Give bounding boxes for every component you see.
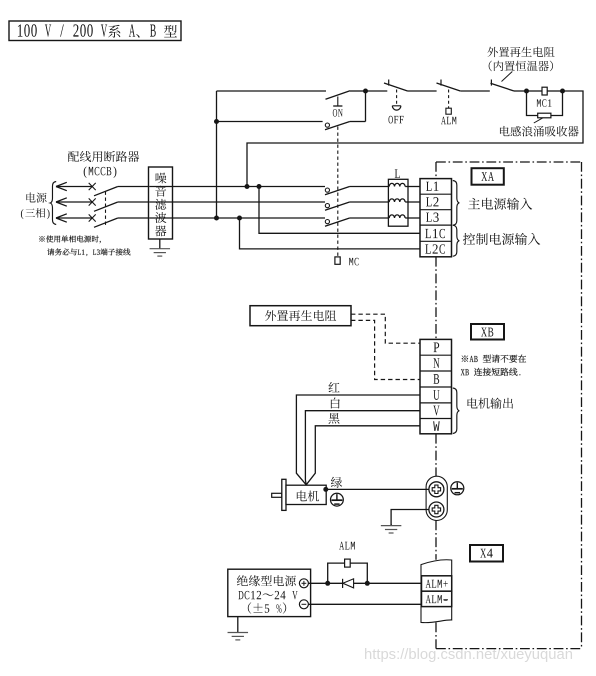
servo drive boundary (chain line) bbox=[436, 162, 582, 649]
wire OFF to ALM bbox=[408, 90, 437, 92]
wire U (red) bbox=[296, 382, 420, 485]
wire: control bus left vertical from phase L3 bbox=[216, 91, 218, 218]
connector label XB bbox=[471, 324, 504, 340]
screw terminal lower bbox=[429, 502, 444, 517]
wire: minus to ALM- bbox=[308, 603, 420, 605]
title box 100V/200V bbox=[9, 21, 181, 41]
ground: power supply bbox=[228, 617, 249, 640]
connector label XA bbox=[472, 168, 504, 185]
wire phase 1 filter to MC contact bbox=[149, 186, 325, 188]
source arrow phase 3 bbox=[56, 214, 92, 222]
connector label X4 bbox=[470, 545, 503, 562]
contact MC pole 2 bbox=[325, 202, 389, 210]
isolated power supply box bbox=[228, 569, 311, 616]
source arrow phase 2 bbox=[56, 198, 92, 206]
wire: L2C tap bbox=[240, 218, 421, 249]
breaker MCCB pole 3 bbox=[89, 214, 149, 227]
watermark bbox=[364, 647, 573, 663]
terminal minus bbox=[299, 600, 308, 609]
thermostat contact (ext. regen resistor) bbox=[491, 72, 515, 92]
contact MC pole 3 bbox=[325, 218, 389, 226]
brace: main power input bbox=[453, 181, 532, 226]
noise filter label bbox=[155, 173, 166, 237]
wire: self holding branch lower bbox=[217, 121, 323, 123]
wire: control return to phase L1 bbox=[247, 91, 583, 187]
terminal ALM- bbox=[422, 591, 452, 606]
junction nodes MC1 bbox=[524, 89, 565, 94]
junction node: ON/self-hold bbox=[214, 89, 368, 125]
reactor L winding 1 bbox=[389, 183, 420, 186]
wire: regen to B (dashed) bbox=[351, 320, 420, 379]
reactor L winding 2 bbox=[389, 199, 420, 202]
terminal plus bbox=[299, 579, 308, 588]
breaker MCCB pole 1 bbox=[89, 183, 149, 196]
breaker MCCB pole 2 bbox=[89, 198, 149, 211]
surge absorber branch bbox=[527, 91, 563, 123]
switch OFF pushbutton NC bbox=[384, 80, 408, 124]
terminal ALM+ bbox=[422, 576, 452, 591]
wire V (white) bbox=[305, 398, 420, 485]
wire: plus to ALM+ bbox=[308, 582, 420, 584]
note: AB type no short bar bbox=[461, 355, 526, 376]
junction nodes on phase lines bbox=[214, 184, 262, 221]
junction: motor frame green wire bbox=[323, 487, 328, 492]
label: wiring breaker MCCB bbox=[68, 151, 139, 178]
ground screw stadium bbox=[426, 476, 447, 520]
PE symbol at drive bbox=[451, 482, 464, 495]
wire: regen to P (dashed) bbox=[351, 314, 420, 343]
wire to OFF bbox=[366, 90, 388, 92]
reactor L box bbox=[388, 169, 408, 226]
PE symbol at motor bbox=[331, 493, 344, 506]
linkage: MCCB dashed bbox=[105, 192, 107, 228]
source brace and label (three phase) bbox=[21, 182, 56, 225]
contact MC auxiliary (self hold) bbox=[325, 91, 366, 130]
brace: control power input bbox=[453, 225, 540, 256]
coil MC bbox=[335, 257, 359, 266]
switch ON pushbutton bbox=[326, 91, 366, 117]
junction nodes ALM branch bbox=[325, 581, 370, 586]
terminal block XA (L1 L2 L3 L1C L2C) bbox=[420, 179, 452, 257]
wire ALM to thermostat bbox=[460, 90, 490, 92]
wire green (ground) bbox=[326, 477, 429, 490]
svg-text:https://blog.csdn.net/xueyuqua: https://blog.csdn.net/xueyuquan bbox=[364, 647, 573, 663]
reactor L winding 3 bbox=[389, 215, 420, 218]
note: single phase usage bbox=[39, 235, 130, 256]
noise filter box bbox=[149, 167, 173, 239]
brace: motor output bbox=[453, 388, 513, 434]
wire: control top bus to ON switch bbox=[217, 90, 327, 92]
label: surge absorber bbox=[500, 126, 579, 137]
wire W (black) bbox=[306, 413, 420, 485]
source arrow phase 1 bbox=[56, 182, 92, 190]
screw terminal upper bbox=[429, 482, 444, 497]
wire thermostat to MC1 bbox=[514, 90, 527, 92]
contact ALM relay NC bbox=[437, 80, 461, 125]
external regen resistor box bbox=[250, 306, 351, 326]
wire phase 2 filter to MC contact bbox=[149, 201, 325, 203]
wire + ground: lower screw to earth bbox=[381, 510, 429, 534]
coil MC1 contactor bbox=[527, 87, 563, 107]
wire: L1C tap bbox=[259, 187, 420, 234]
label: external regen resistor (thermostat) bbox=[487, 47, 554, 71]
coil ALM relay bbox=[328, 542, 368, 584]
ground: noise filter bbox=[150, 239, 171, 256]
contact MC pole 1 bbox=[325, 187, 389, 195]
terminal block XB (P N B U V W) bbox=[420, 339, 452, 433]
motor M bbox=[272, 479, 327, 510]
linkage: MC mechanical dashed bbox=[337, 127, 339, 257]
connector X4 body (partial, wavy) bbox=[421, 560, 452, 623]
diode (flyback) bbox=[343, 579, 354, 588]
wire phase 3 filter to MC contact bbox=[149, 217, 325, 219]
